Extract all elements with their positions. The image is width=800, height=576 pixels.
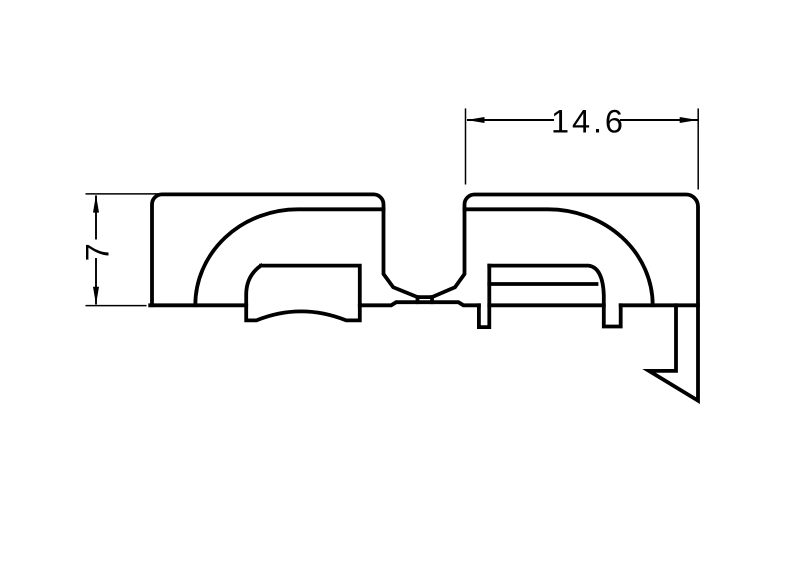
- extension line, top dimension right: [697, 108, 699, 189]
- arrowhead bottom of 7: [93, 287, 99, 305]
- wire bottom line between legs: [489, 303, 604, 307]
- center web notch left vertical: [416, 297, 420, 302]
- svg-text:14.6: 14.6: [551, 104, 623, 140]
- svg-text:7: 7: [80, 243, 116, 261]
- dimension line 7 upper part: [95, 196, 97, 240]
- arrowhead top of 7: [93, 195, 99, 213]
- extension line, top dimension left: [465, 108, 467, 184]
- left bench (inner shape with curved bottom): [246, 266, 360, 321]
- dimension line 14.6 right part: [620, 119, 698, 121]
- center web notch right vertical: [430, 297, 434, 302]
- wire bottom line mid segment with raised web: [360, 302, 479, 305]
- extension line, left dimension bottom: [86, 305, 147, 307]
- dimension line 7 lower part: [95, 258, 97, 305]
- right bench (inner table shape): [489, 266, 620, 327]
- arrowhead right of 14.6: [680, 117, 698, 123]
- left leg of right block and bench left edge: [479, 266, 489, 328]
- arrowhead left of 14.6: [467, 117, 485, 123]
- dimension line 14.6 left part: [467, 119, 554, 121]
- profile outer outline (left block, funnel, right block, hook): [152, 194, 698, 400]
- wire bottom line left segment: [150, 303, 246, 307]
- extension line, left dimension top: [86, 193, 164, 195]
- inner lip line + arc, right block: [465, 209, 653, 305]
- right bench lower line: [489, 282, 596, 286]
- inner lip line + arc, left block: [195, 209, 383, 305]
- wire bottom line right segment: [621, 303, 698, 307]
